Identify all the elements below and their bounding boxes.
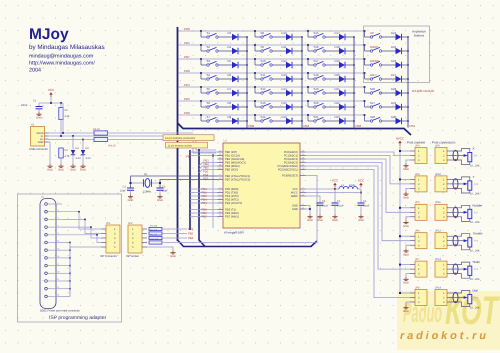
wire AREF — [306, 196, 321, 203]
svg-text:S4: S4 — [207, 73, 211, 77]
diode D18 1N4148 — [325, 45, 355, 54]
diode D28 1N4148 — [382, 87, 409, 96]
wire matrix column drain PB0 — [246, 37, 248, 128]
wire D- line — [49, 135, 197, 137]
svg-text:S16: S16 — [314, 45, 319, 49]
ground pot row 5 — [403, 277, 409, 285]
connector JP14 pot connector — [435, 286, 452, 305]
switch RIGHT — [364, 44, 382, 52]
diode D13 1N4148 — [272, 73, 303, 82]
svg-text:S10: S10 — [261, 59, 266, 63]
potentiometer Rudder 10..20K — [452, 203, 482, 224]
wire button net to PD pin — [190, 216, 218, 218]
cable — [453, 292, 458, 302]
svg-text:Q1: Q1 — [144, 173, 148, 176]
svg-text:15pF: 15pF — [120, 190, 126, 193]
diode D11 1N4148 — [272, 45, 303, 54]
svg-text:PD6: PD6 — [184, 111, 190, 115]
svg-text:100nF: 100nF — [21, 104, 29, 107]
svg-text:radiokot.ru: radiokot.ru — [400, 330, 486, 342]
wire isp net 1 — [62, 212, 101, 229]
svg-text:D8: D8 — [228, 101, 232, 105]
node label PB4 at mcu — [199, 166, 218, 169]
ground C5 — [332, 215, 338, 223]
svg-text:DB25 Printer port male connect: DB25 Printer port male connector — [40, 310, 80, 313]
svg-text:R4 10: R4 10 — [109, 145, 116, 148]
svg-text:PB5: PB5 — [188, 233, 194, 236]
svg-text:10...20K: 10...20K — [470, 221, 480, 224]
svg-text:PB4: PB4 — [188, 237, 194, 240]
svg-text:Buttons: Buttons — [414, 34, 425, 38]
wire pin3 to gnd — [406, 245, 410, 249]
svg-text:AVCC: AVCC — [396, 136, 405, 140]
diode D29 1N4148 — [382, 101, 409, 110]
svg-text:S21: S21 — [314, 115, 319, 119]
capacitor C4 0.1uF — [317, 200, 330, 215]
svg-text:GND: GND — [403, 197, 409, 200]
svg-text:D29: D29 — [391, 101, 397, 105]
keyswitch buttons box — [364, 26, 430, 83]
wire ADC5 to pot row 6 — [306, 170, 411, 298]
resistor R9 220 — [149, 233, 162, 239]
svg-text:S5: S5 — [207, 87, 211, 91]
svg-text:R7 220: R7 220 — [150, 224, 158, 227]
diode D24 1N4148 — [382, 31, 409, 40]
connector J1 DB25 — [40, 196, 62, 309]
svg-text:D20: D20 — [335, 73, 341, 77]
potentiometer X 10..20K — [452, 147, 480, 168]
svg-text:D26: D26 — [391, 59, 397, 63]
connector X1 USB — [29, 124, 49, 152]
svg-text:R2: R2 — [65, 149, 69, 152]
wire matrix row 2 net PD1 — [179, 44, 365, 46]
svg-text:D9: D9 — [228, 115, 232, 119]
connector JP10 pot connector — [435, 173, 452, 192]
resistor R3 10 — [93, 128, 193, 135]
svg-text:S26: S26 — [370, 87, 375, 91]
capacitor C1 100nF — [21, 100, 43, 113]
wire avcc to pin1 — [400, 207, 410, 209]
svg-text:R3 10: R3 10 — [93, 128, 100, 131]
ground C1 — [36, 112, 42, 120]
ground pot row 4 — [403, 249, 409, 257]
wire gnd pin join — [62, 265, 70, 267]
ground C6 — [358, 215, 364, 223]
svg-text:D3-D30 1N4148: D3-D30 1N4148 — [412, 89, 434, 93]
svg-text:PB1: PB1 — [410, 124, 416, 128]
connector JP2 ISP socket — [126, 222, 147, 258]
title MJoy — [29, 26, 105, 74]
wire avcc to pin1 — [400, 292, 410, 294]
diode D26 1N4148 — [382, 59, 409, 68]
wire button net to PB pin — [190, 155, 218, 157]
wire pin3 to gnd — [406, 302, 410, 306]
connector label 11 pin buttons socket — [166, 142, 208, 148]
svg-text:S8: S8 — [261, 31, 265, 35]
svg-text:D1: D1 — [76, 147, 80, 150]
svg-text:JP12: JP12 — [435, 230, 441, 233]
svg-text:JP4: JP4 — [415, 173, 420, 176]
wire xtal1 — [131, 176, 218, 188]
svg-text:R13: R13 — [474, 268, 479, 271]
svg-text:D18: D18 — [335, 45, 341, 49]
svg-text:D7: D7 — [228, 87, 232, 91]
svg-text:R12: R12 — [474, 240, 479, 243]
svg-text:PB4: PB4 — [304, 124, 310, 128]
switch S16 — [307, 44, 325, 52]
svg-text:10...20K: 10...20K — [470, 250, 480, 253]
svg-text:X1: X1 — [31, 124, 35, 127]
svg-text:4.7k: 4.7k — [65, 155, 71, 158]
svg-text:GND: GND — [358, 219, 364, 222]
svg-text:R8 220: R8 220 — [150, 229, 158, 232]
svg-text:S17: S17 — [314, 59, 319, 63]
svg-text:JP8: JP8 — [415, 286, 420, 289]
switch S18 — [307, 72, 325, 80]
diode D12 1N4148 — [272, 59, 303, 68]
svg-text:PD3: PD3 — [202, 202, 208, 205]
svg-text:S2: S2 — [207, 45, 211, 49]
svg-text:JP11: JP11 — [435, 201, 441, 204]
connector label 11 pin buttons connector — [163, 135, 214, 141]
connector JP13 pot connector — [435, 258, 452, 277]
wire button net to PB pin — [190, 151, 218, 153]
svg-text:PC5(ADC5/SCL): PC5(ADC5/SCL) — [278, 169, 298, 172]
wire row bus left vertical — [177, 27, 179, 241]
connector JP8 pot socket — [410, 286, 427, 305]
potentiometer Slider 10..20K — [452, 260, 480, 281]
svg-text:GND: GND — [47, 169, 53, 172]
diode D23 1N4148 — [325, 115, 355, 124]
svg-text:D2: D2 — [86, 147, 90, 150]
switch S27 — [364, 100, 382, 108]
svg-text:Throttle: Throttle — [473, 232, 484, 236]
svg-text:Slider: Slider — [473, 260, 481, 264]
switch S8 — [254, 30, 272, 38]
switch S20 — [307, 100, 325, 108]
svg-text:C1: C1 — [33, 100, 37, 103]
svg-text:PD5: PD5 — [184, 97, 190, 101]
svg-text:D6: D6 — [228, 73, 232, 77]
svg-text:S12: S12 — [261, 87, 266, 91]
wire pin3 to gnd — [406, 274, 410, 278]
resistor R10 220 — [149, 238, 162, 244]
switch S2 — [200, 44, 218, 52]
wire avcc to pin1 — [400, 264, 410, 266]
ground C2 — [128, 195, 134, 203]
ground D2 — [80, 164, 86, 172]
svg-text:JP5: JP5 — [415, 201, 420, 204]
svg-text:GND: GND — [292, 208, 298, 211]
svg-text:2004: 2004 — [29, 68, 41, 74]
svg-text:D14: D14 — [282, 87, 288, 91]
wire VBUS line — [49, 132, 95, 134]
svg-text:S1: S1 — [207, 31, 211, 35]
power AVCC pots — [396, 136, 405, 145]
wire gnd pin join — [62, 257, 70, 259]
wire button net to PD pin — [190, 212, 218, 214]
svg-text:JP9: JP9 — [435, 144, 440, 147]
svg-text:PD4: PD4 — [184, 83, 190, 87]
junction mark — [455, 244, 457, 246]
wire matrix column drain PB1 — [407, 37, 409, 128]
svg-text:USB-connector: USB-connector — [29, 147, 48, 151]
svg-text:S9: S9 — [261, 45, 265, 49]
svg-text:VCC: VCC — [358, 178, 365, 182]
diode D25 1N4148 — [382, 45, 409, 54]
svg-text:PB0: PB0 — [249, 124, 255, 128]
wire ADC4 to pot row 5 — [306, 166, 411, 269]
svg-text:PD1: PD1 — [184, 41, 190, 45]
power VCC — [48, 88, 55, 97]
svg-text:D30: D30 — [391, 115, 397, 119]
connector JP5 pot socket — [410, 201, 427, 220]
wire pin3 to gnd — [406, 188, 410, 192]
svg-text:PB5 (SCK): PB5 (SCK) — [225, 169, 238, 172]
wire ADC3 to pot row 4 — [306, 163, 411, 241]
svg-text:JP2: JP2 — [128, 222, 133, 225]
svg-text:D23: D23 — [335, 115, 341, 119]
switch S1 — [200, 30, 218, 38]
resistor R4 10 — [94, 137, 116, 147]
svg-text:2.2k: 2.2k — [65, 115, 71, 118]
svg-text:D28: D28 — [391, 87, 397, 91]
switch S7 — [200, 114, 218, 122]
junction mark — [455, 301, 457, 303]
diode D9 1N4148 — [218, 115, 248, 124]
switch S5 — [200, 86, 218, 94]
svg-text:VCC: VCC — [332, 178, 339, 182]
diode D10 1N4148 — [272, 31, 303, 40]
svg-text:UP: UP — [370, 31, 374, 35]
connector JP4 pot socket — [410, 173, 427, 192]
svg-text:0.1uF: 0.1uF — [337, 205, 344, 208]
svg-text:10...20K: 10...20K — [470, 164, 480, 167]
svg-text:JP7: JP7 — [415, 258, 420, 261]
wire pin3 to gnd — [406, 217, 410, 221]
svg-text:S18: S18 — [314, 73, 319, 77]
wire button net to PD pin — [190, 188, 218, 190]
diode D21 1N4148 — [325, 87, 355, 96]
ground pot row 3 — [403, 220, 409, 228]
svg-text:GND: GND — [403, 282, 409, 285]
svg-text:PB3: PB3 — [188, 228, 194, 231]
svg-text:GND: GND — [170, 255, 176, 258]
switch S12 — [254, 86, 272, 94]
svg-text:PD7: PD7 — [202, 215, 208, 218]
wire matrix row 3 net PB7 — [179, 58, 365, 60]
svg-text:GND: GND — [157, 199, 163, 202]
wire ADC2 to pot row 3 — [306, 159, 411, 212]
svg-text:10uH: 10uH — [349, 184, 355, 187]
svg-text:PD6: PD6 — [184, 27, 190, 31]
svg-text:D11: D11 — [282, 45, 287, 49]
svg-text:S14: S14 — [261, 115, 266, 119]
wire ADC0 to pot row 1 — [306, 152, 411, 156]
svg-text:0.1uF: 0.1uF — [363, 205, 370, 208]
svg-text:DOWN: DOWN — [370, 59, 379, 63]
svg-text:D24: D24 — [391, 31, 397, 35]
diode D30 1N4148 — [382, 115, 409, 124]
svg-text:D13: D13 — [282, 73, 288, 77]
switch DOWN — [364, 58, 382, 66]
cable — [453, 236, 458, 246]
svg-text:PD0: PD0 — [184, 69, 190, 73]
diode D27 1N4148 — [382, 73, 409, 82]
wire usb GND — [49, 142, 51, 164]
svg-text:PB6: PB6 — [356, 124, 362, 128]
svg-text:LEFT: LEFT — [370, 73, 377, 77]
wire matrix row 1 net PD6 — [179, 30, 365, 32]
switch S6 — [200, 100, 218, 108]
svg-text:X: X — [473, 147, 475, 151]
diode D22 1N4148 — [325, 101, 355, 110]
wire pin3 to gnd — [406, 160, 410, 164]
svg-text:C4: C4 — [322, 200, 326, 203]
wire gnd pin join — [62, 280, 70, 282]
diode D17 1N4148 — [325, 31, 355, 40]
diode D7 1N4148 — [218, 87, 248, 96]
svg-text:JP10: JP10 — [435, 173, 441, 176]
svg-text:GND: GND — [58, 169, 64, 172]
svg-text:GND: GND — [307, 219, 313, 222]
svg-text:3.6V: 3.6V — [86, 157, 92, 160]
svg-text:PB7 (XTAL2/TOSC2): PB7 (XTAL2/TOSC2) — [225, 179, 250, 182]
wire button net to PD pin — [190, 209, 218, 211]
ground mcu — [307, 215, 313, 223]
ground usb — [47, 164, 53, 172]
diode D15 1N4148 — [272, 101, 303, 110]
ISP programming adapter box — [18, 194, 122, 322]
zener D2 3.6V — [81, 139, 91, 164]
svg-text:R9 220: R9 220 — [150, 233, 158, 236]
svg-text:S3: S3 — [207, 59, 211, 63]
wire isp gnd bundle — [62, 247, 101, 296]
svg-text:D21: D21 — [335, 87, 341, 91]
svg-text:S15: S15 — [314, 31, 319, 35]
svg-text:Rudder: Rudder — [473, 203, 483, 207]
svg-text:S19: S19 — [314, 87, 319, 91]
node label PB5 at mcu — [199, 170, 218, 173]
wire bus mcu-left vertical — [189, 150, 191, 230]
ground R2 — [58, 164, 64, 172]
wire gnd pin join — [62, 272, 70, 274]
ground D1 — [70, 164, 76, 172]
svg-text:10...20K: 10...20K — [470, 306, 480, 309]
switch LEFT — [364, 72, 382, 80]
svg-text:GND: GND — [128, 199, 134, 202]
diode D20 1N4148 — [325, 73, 355, 82]
svg-text:S20: S20 — [314, 101, 319, 105]
inductor L1 10uH — [335, 184, 361, 189]
wire matrix row 6 net PD5 — [179, 100, 365, 102]
svg-text:http://www.mindaugas.com/: http://www.mindaugas.com/ — [29, 61, 95, 67]
svg-text:D16: D16 — [282, 115, 288, 119]
wire button net to PD pin — [190, 202, 218, 204]
svg-text:GND: GND — [80, 169, 86, 172]
wire D- to mcu — [196, 136, 216, 150]
svg-text:D12: D12 — [282, 59, 288, 63]
svg-text:PB5: PB5 — [204, 167, 210, 170]
svg-text:Dial: Dial — [473, 289, 479, 293]
capacitor C3 15pF — [157, 186, 169, 195]
switch S17 — [307, 58, 325, 66]
svg-text:C3: C3 — [162, 186, 166, 189]
svg-text:D25: D25 — [391, 45, 397, 49]
wire GND pins — [306, 206, 311, 215]
svg-text:JP3: JP3 — [415, 144, 420, 147]
wire gnd pin join — [62, 242, 70, 244]
pin numbers U1 — [219, 149, 305, 217]
switch S28 — [364, 114, 382, 122]
svg-text:GND: GND — [403, 168, 409, 171]
svg-text:ATmega8-16PI: ATmega8-16PI — [224, 230, 244, 234]
resistor R8 220 — [149, 229, 162, 235]
svg-text:D22: D22 — [335, 101, 341, 105]
wire avcc to pin1 — [400, 178, 410, 180]
cable — [453, 207, 458, 217]
node label PB3 at mcu — [199, 163, 218, 166]
diode D8 1N4148 — [218, 101, 248, 110]
resistor R2 4.7k — [59, 148, 70, 164]
switch S15 — [307, 30, 325, 38]
diode D16 1N4148 — [272, 115, 303, 124]
connector JP9 pot connector — [435, 144, 452, 163]
svg-text:U1: U1 — [224, 139, 228, 143]
wire matrix row 5 net PD4 — [179, 86, 365, 88]
svg-text:0.1uF: 0.1uF — [322, 205, 329, 208]
wire matrix column drain PB4 — [301, 37, 303, 128]
svg-text:15pF: 15pF — [162, 190, 168, 193]
svg-text:R10: R10 — [474, 183, 479, 186]
svg-text:S27: S27 — [370, 101, 375, 105]
wire gnd pin join — [62, 249, 70, 251]
wire bottom column bus — [178, 123, 412, 135]
svg-text:GND: GND — [403, 225, 409, 228]
svg-text:ISP programming adapter: ISP programming adapter — [49, 315, 106, 321]
junction mark — [455, 159, 457, 161]
switch S3 — [200, 58, 218, 66]
capacitor C5 0.1uF — [332, 189, 345, 215]
svg-text:D3: D3 — [228, 31, 232, 35]
diode D19 1N4148 — [325, 59, 355, 68]
wire button net to PD pin — [190, 195, 218, 197]
wire VCC pin rail — [306, 188, 336, 190]
potentiometer Y 10..20K — [452, 175, 480, 196]
connector JP1 ISP connector — [100, 222, 120, 258]
wire jp2 pin5 gnd — [147, 247, 173, 251]
svg-text:S6: S6 — [207, 101, 211, 105]
svg-text:ISP connector: ISP connector — [100, 255, 117, 258]
svg-text:RIGHT: RIGHT — [370, 45, 379, 49]
wire matrix row 4 net PD0 — [179, 72, 365, 74]
switch S13 — [254, 100, 272, 108]
ground C3 — [157, 195, 163, 203]
svg-text:R5: R5 — [65, 109, 69, 112]
potentiometer Dial 10..20K — [452, 289, 480, 310]
wire isp net 2 — [62, 219, 101, 233]
svg-text:mindaug@mindaugas.com: mindaug@mindaugas.com — [29, 54, 94, 60]
svg-text:JP13: JP13 — [435, 258, 441, 261]
wire AVCC pin — [306, 192, 362, 194]
svg-text:PD4 (XCK/T0): PD4 (XCK/T0) — [225, 202, 242, 205]
connector JP7 pot socket — [410, 258, 427, 277]
svg-text:GND: GND — [70, 169, 76, 172]
svg-text:by Mindaugas Milasauskas: by Mindaugas Milasauskas — [29, 44, 105, 51]
capacitor C6 0.1uF — [358, 200, 371, 215]
wire button net to PD pin — [190, 199, 218, 201]
switch S26 — [364, 86, 382, 94]
